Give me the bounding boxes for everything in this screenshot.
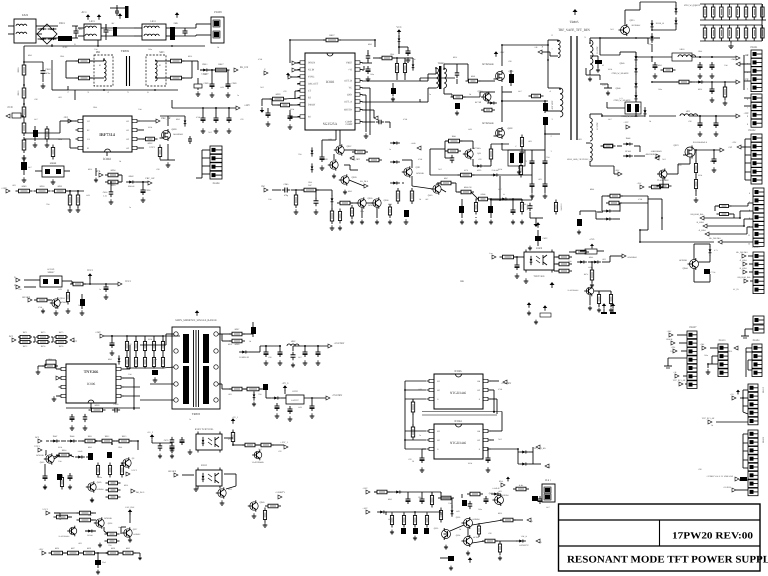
cap c-drive1 [455,64,460,84]
wire outa long [420,77,455,79]
svg-text:C844: C844 [118,446,122,449]
mosfet Q801 top [482,63,514,82]
flag +5F pl807 [669,338,675,345]
diode d-stb [490,169,500,177]
svg-text:MDF9N60: MDF9N60 [173,133,184,136]
transistor Q810b [426,183,442,201]
wire ic811 [182,474,236,489]
svg-text:C86: C86 [88,514,91,517]
svg-text:10K: 10K [412,58,416,61]
svg-text:ON/OFF: ON/OFF [22,296,31,299]
cap comp [362,120,390,128]
svg-text:22K: 22K [568,260,572,263]
cap c-14f c [710,62,715,78]
ic826 pins right [477,379,490,401]
svg-text:R83: R83 [578,138,581,141]
cap c-bm1 [406,496,425,504]
cap c-ic824 a [412,455,425,472]
title text name [567,555,768,566]
svg-text:OSC.OUT: OSC.OUT [308,83,319,86]
ic IC803 SG3525A [305,53,355,130]
resistor R867 [229,328,245,336]
wire bm3 [472,520,523,525]
wire bank row2 [700,25,762,41]
wire 5vstby [218,334,328,352]
svg-text:CT: CT [308,90,312,93]
cap c864 [263,384,268,390]
wire q807 feed [322,130,340,154]
wire bm top [374,492,451,498]
diode d-sw [331,195,334,205]
svg-text:A_DIM: A_DIM [740,259,747,262]
connector PL805 label [762,436,765,443]
svg-text:+3.3SBTY IE 5.1V FOR USA: +3.3SBTY IE 5.1V FOR USA [706,475,733,478]
wire tr803 left [140,334,174,400]
svg-text:A_DIM: A_DIM [699,229,706,232]
resistor r-ic824 b [411,424,414,440]
flag gnd ac [175,12,180,17]
svg-text:C422: C422 [543,237,548,240]
wire ic824 left [405,381,426,449]
wire sec ties [586,38,602,166]
flag VCC1 bl2 [126,469,137,476]
transistor Q-bl1 [36,453,54,464]
svg-text:D84: D84 [328,138,331,141]
svg-text:PL809: PL809 [214,11,222,14]
X cap C802 [104,24,114,40]
flag G node [14,276,20,282]
svg-text:100K: 100K [498,168,503,171]
resistor R856 [68,192,71,208]
svg-text:R850: R850 [453,56,457,59]
connector PL812 label [762,387,765,393]
wire ic803 top loop [290,40,375,63]
svg-text:L.3: L.3 [620,97,623,100]
resistor r814 [45,126,49,142]
cap C861 [278,349,283,365]
mosfet Q802 bottom [482,122,513,139]
svg-text:22K: 22K [18,288,22,291]
svg-text:2K2: 2K2 [258,448,261,451]
resistor R839 [278,103,293,107]
svg-text:470R: 470R [403,118,408,121]
cap c817 [21,155,27,175]
svg-text:BC858B: BC858B [679,259,687,262]
svg-text:D801: D801 [59,22,65,25]
svg-text:10K: 10K [58,460,62,463]
wire pl813 [707,348,718,365]
transistor Q820 [86,481,104,493]
svg-text:OUT_A: OUT_A [344,101,352,104]
diode D845 stps [239,351,250,360]
svg-text:D9148: D9148 [87,534,92,537]
svg-text:D1: D1 [126,120,129,123]
ic SR808 [35,162,70,177]
flag PFC_OFF [126,506,136,515]
svg-text:+PWRSEG: +PWRSEG [627,256,638,259]
transistor q-bm1 [489,492,509,506]
flag A_DIM b [740,259,747,266]
cap c-q844 [704,269,716,274]
cap C869 [204,81,215,89]
svg-text:STPR_W: STPR_W [656,22,665,25]
ic802 pins right [126,119,139,150]
svg-text:C838: C838 [103,191,108,194]
wire bank row1 [700,4,762,20]
flag P node [14,284,20,289]
flag +14V pl807 [666,330,673,337]
title block divider [659,520,661,546]
resistor r-ic809c [573,250,589,254]
fuse F801 [170,22,179,40]
svg-text:4570: 4570 [464,169,468,172]
wire 14f rail [636,52,736,58]
flag +14F pl [731,58,740,66]
resistor r-d3 [81,547,98,555]
resistor R841 [446,135,463,143]
svg-text:R83: R83 [228,393,231,396]
svg-text:2K2: 2K2 [438,168,441,171]
svg-text:R84Z: R84Z [589,256,594,259]
resistor r863 [66,290,69,305]
svg-text:STPS2L30: STPS2L30 [239,356,250,359]
flag VCC_PC1_4N nt [532,445,546,450]
resistor r-bl6 [96,463,123,478]
wire res pairs [18,337,53,342]
svg-text:R845: R845 [108,358,112,361]
cap C809 sec [194,78,202,90]
svg-text:SEC: SEC [159,51,164,54]
wire tr806 bottom loop [52,60,178,100]
wire 5f [649,149,720,202]
flag ic803 inv [292,61,300,65]
resistor R847 [213,63,230,72]
svg-text:C844: C844 [698,50,702,53]
transistor Q808 [323,158,339,171]
svg-text:10K: 10K [670,350,674,353]
resistor r861 [70,282,86,286]
flag +5V ml [147,431,154,440]
gnd bl1 [43,470,72,489]
resistor r-gate1 [481,102,497,112]
svg-text:D2: D2 [437,439,440,442]
diode d843 [118,355,121,364]
cap c846 [266,108,271,126]
cap c-12f b [714,120,719,136]
svg-text:C844: C844 [308,181,312,184]
connector PL803 pins [748,188,764,246]
svg-text:Q8: Q8 [132,457,134,460]
wire q807s [334,150,364,186]
ic IC826 label [455,370,463,373]
resistor R-q84 loop [445,146,461,163]
svg-text:+VI: +VI [348,69,352,72]
cap c850 [104,284,109,299]
svg-text:1n: 1n [129,206,131,209]
flag +3.3SBTY [275,491,285,499]
wire stb [107,175,148,189]
svg-text:100n: 100n [98,476,102,479]
resistor R857 [76,192,79,208]
svg-text:MTP6N60E: MTP6N60E [482,63,494,66]
wire c [54,513,79,517]
svg-text:+14F: +14F [700,343,705,346]
svg-text:R83: R83 [498,490,501,493]
svg-text:R850: R850 [188,55,192,58]
cap c867 [310,403,315,418]
svg-text:C840: C840 [46,68,52,71]
wire fb row2 [445,141,509,166]
flag +14F pl813 [700,343,706,350]
resistor r-bl3 [116,435,132,443]
svg-text:AC1: AC1 [9,335,14,338]
flag PRC_14F stb [145,177,155,185]
flag PR_10F [234,66,249,72]
cap c-d1 [95,553,106,574]
svg-text:D84: D84 [588,266,591,269]
ic803 pins right [355,61,363,123]
svg-text:R83: R83 [12,184,15,187]
wire q844 [694,244,710,282]
wire bm mid [452,494,462,508]
resistor r-dimsel [597,205,732,213]
connector PL801 label [751,46,759,49]
svg-text:470R: 470R [418,158,423,161]
svg-text:C86: C86 [156,168,159,171]
svg-text:470R: 470R [38,306,43,309]
resistor bank row2 [703,26,764,40]
node HB [460,280,464,283]
bridge rectifier D801 [37,22,66,44]
wire pl804b [748,360,752,370]
svg-text:VC: VC [349,87,353,90]
svg-text:EF166: EF166 [625,150,631,153]
wire tr804 conn2 [444,64,452,94]
svg-text:BC768A: BC768A [473,147,481,150]
svg-text:D847: D847 [53,435,58,438]
wire 26v rail [104,335,180,340]
svg-text:IC826: IC826 [455,370,463,373]
cap c-ss [288,113,301,129]
connector PL804 label [753,339,760,342]
svg-text:C844: C844 [390,53,394,56]
flag DR_AVG [131,489,145,494]
wire tr806 pins [66,58,192,78]
svg-text:C870: C870 [164,439,169,442]
resistor R850 [34,185,51,193]
flag vcc2 [149,146,156,149]
resistor r-14f [661,68,676,72]
cap C804 top [115,5,119,16]
svg-text:22K: 22K [203,73,207,76]
svg-text:Q827: Q827 [133,528,137,531]
svg-text:22K: 22K [46,203,50,206]
diode zd-3v3 [252,391,256,406]
svg-text:L802: L802 [291,340,296,343]
cap C868 [226,81,238,89]
flag +5F pl813r [734,346,740,351]
svg-text:2K2: 2K2 [498,438,501,441]
transistor Q84x [463,147,481,160]
wire shutd [362,110,378,120]
title block row line 2 [559,545,761,547]
cap C805 [183,28,188,36]
wire c2 [85,512,130,534]
svg-text:+12V: +12V [545,466,550,469]
ic tl431 mid [567,286,613,312]
svg-text:+PROGRES: +PROGRES [650,150,662,153]
svg-text:C85: C85 [240,118,243,121]
svg-text:R928: R928 [87,547,91,550]
svg-text:4K7: 4K7 [298,356,301,359]
connector PL806 pins [753,252,764,294]
wire left chain to ic802 [24,121,76,148]
flag +3.3SBTY usa [706,475,739,481]
svg-text:470p: 470p [284,194,288,197]
cap c-m2 [543,158,548,166]
svg-text:C85: C85 [648,43,651,46]
wire opto [224,431,284,446]
gnd m [530,193,548,227]
flag +16V [614,169,622,176]
wire vc [362,88,370,135]
diode zd-q844 [709,246,719,256]
flag ic803 sync [286,73,300,79]
svg-text:C802: C802 [108,29,114,32]
ic826 pins left [427,379,440,401]
ntc thermistor [50,36,72,49]
gnd chain1 [22,155,27,160]
connector PL807 label [690,326,698,329]
cap c853 [110,340,115,355]
wire ic803 osc [297,83,300,85]
svg-text:4K7: 4K7 [118,526,121,529]
resistor r-c2 [54,515,71,519]
svg-text:100n: 100n [148,48,152,51]
transformer TR806 core [127,56,130,86]
resistor R-zvl [580,249,604,259]
ic IC806 TNY266 [66,364,116,403]
transistor q-bm2 [456,516,480,529]
svg-text:BC848C: BC848C [133,533,141,536]
resistor R851 [52,185,69,193]
svg-text:Q825: Q825 [40,461,45,464]
svg-text:+5VSTB: +5VSTB [723,486,731,489]
svg-text:4K7: 4K7 [546,506,549,509]
cap c-sw2 [314,198,319,206]
gnd q824 [41,308,84,315]
svg-text:1n: 1n [429,93,431,96]
diode d-fbrow [499,193,509,201]
cap C863 [316,349,321,365]
transistor Q-c1 [94,517,112,529]
flag +26V c [38,548,46,555]
svg-text:TL431AMPU: TL431AMPU [567,289,579,292]
svg-text:100K: 100K [698,174,703,177]
svg-text:C86: C86 [468,186,471,189]
svg-text:D842: D842 [129,175,134,178]
resistor r884 [263,508,266,523]
resistor r-q805 [337,201,373,223]
flag +12F [736,112,749,118]
resistor r-sw2 [294,192,297,208]
gnd ic811 [194,486,268,527]
svg-text:Q834: Q834 [456,534,460,537]
cap block resonant [508,145,525,174]
resistor r-bl7 [106,481,121,499]
resistor R47L [584,267,594,287]
connector PL813 label [719,339,726,342]
resistor r-bm7 [477,518,516,537]
transistor Q-bl2 [121,457,134,469]
svg-text:RV: RV [112,22,115,25]
svg-text:PL807: PL807 [690,326,698,329]
svg-text:NTC: NTC [63,46,68,49]
svg-text:R845: R845 [88,446,92,449]
transformer TR805 sec12 winding [590,118,599,141]
svg-text:R872: R872 [23,345,28,348]
cap c-bm2 [401,528,429,534]
transformer TR806 pri box [94,55,113,86]
svg-text:470R: 470R [258,58,263,61]
flag +12V sec [623,121,630,129]
svg-text:BNL: BNL [499,480,504,483]
svg-text:VCC1: VCC1 [131,469,137,472]
wire ic809 [514,252,576,271]
diode d-zvl1 [577,261,601,264]
svg-text:PL801: PL801 [751,46,759,49]
svg-text:100n: 100n [704,354,708,357]
svg-text:10K: 10K [94,48,98,51]
diode d-bl2 [67,435,77,443]
flag B_DIM [697,221,707,228]
diode D842 [126,175,136,188]
svg-text:PT_8V: PT_8V [733,288,739,291]
svg-text:R845: R845 [658,64,662,67]
svg-text:+12F: +12F [743,112,749,115]
flag ZD9 [411,142,421,150]
flag +14F [736,54,749,60]
wire aux [542,40,558,56]
svg-text:C869: C869 [204,82,209,85]
resistor r-d1 [49,547,66,555]
svg-text:R845: R845 [176,118,180,121]
svg-text:R-BL: R-BL [519,484,524,487]
wire caps24 [203,108,229,115]
svg-text:R850: R850 [498,512,502,515]
cap c-m4 [543,181,548,189]
resistor R873 pair [36,331,50,348]
resistor bank row1 [703,5,764,19]
transistor Q815 [619,19,642,36]
transistor Q844 [679,258,698,270]
resistor r-bl5 [60,475,63,490]
svg-text:+26V: +26V [95,331,101,334]
svg-text:BC264LF: BC264LF [632,24,642,27]
wire ic824 gnd [422,448,489,455]
cap C859 [251,322,256,337]
cap c-sw [282,183,290,197]
svg-text:2K2: 2K2 [260,86,263,89]
diode q817 [622,106,647,118]
connector PL802 label [749,129,757,132]
wire q803 [160,116,185,160]
svg-text:D84: D84 [298,406,301,409]
transistor Q811 [402,166,424,178]
svg-text:STPR_W_20L60CP: STPR_W_20L60CP [614,99,632,102]
resistor R813 [22,137,26,153]
transformer TR805 sec24 winding [584,36,599,70]
